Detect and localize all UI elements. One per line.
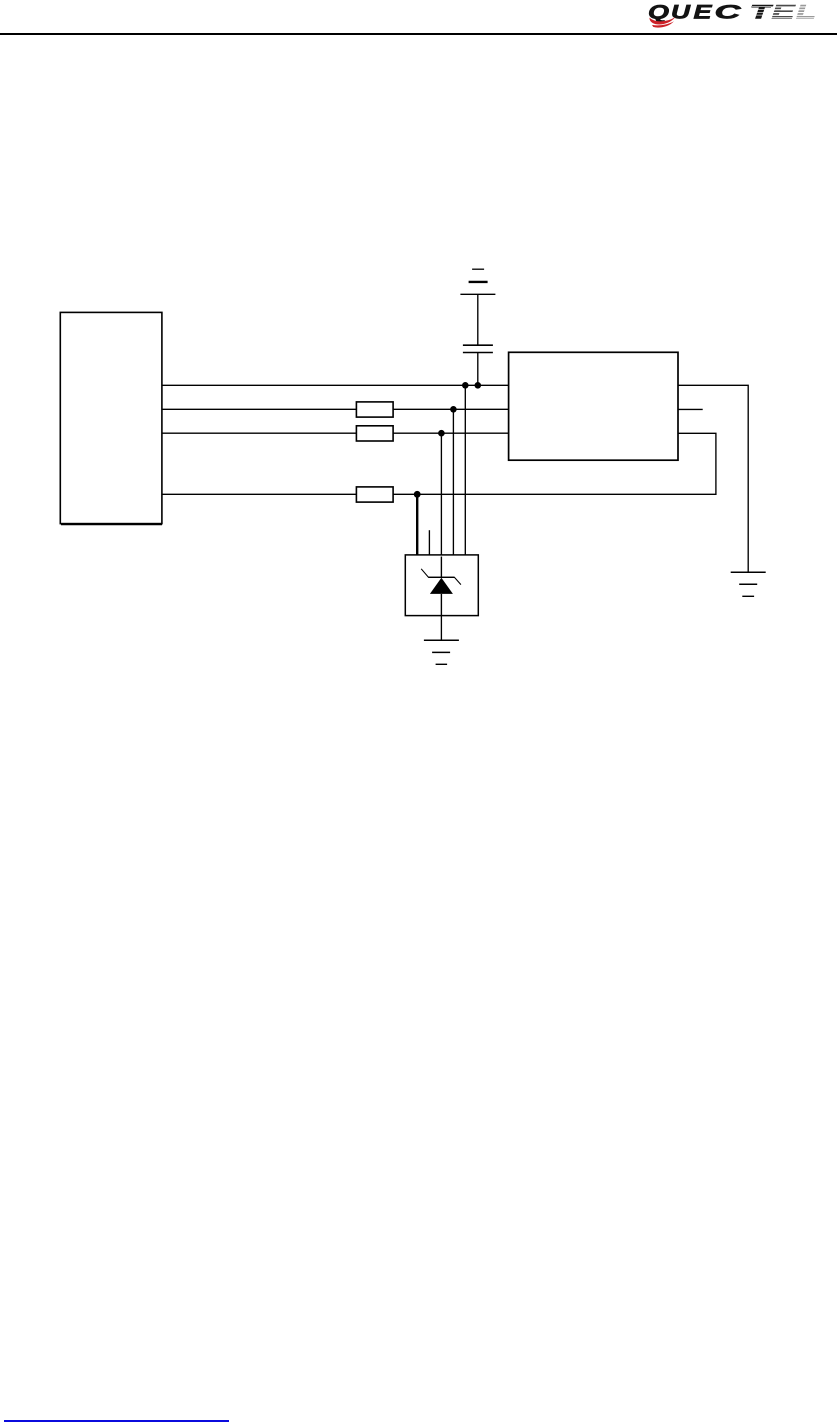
wire J1 GND pin to ground: [678, 385, 748, 572]
wire SIM_CLK: [162, 432, 509, 434]
wire SIM_DATA: [162, 408, 509, 410]
junction (VSIM to TVS branch): [462, 382, 469, 389]
footer hyperlink rule: [4, 1420, 229, 1422]
capacitor C1: [463, 345, 493, 352]
wire SIM_CLK down to TVS pin: [440, 433, 442, 555]
resistor R1: [356, 402, 393, 417]
Quectel logo: [640, 0, 830, 32]
wire from top ground to capacitor C1: [477, 294, 479, 345]
module U1 (left box): [60, 312, 162, 524]
zener diode symbol inside D1: [421, 557, 461, 616]
SIM card holder J1 (right box): [509, 352, 678, 460]
wire SIM_DATA down to TVS pin: [452, 409, 454, 555]
junction (SIM_RST to TVS branch): [414, 491, 421, 498]
unconnected TVS pin stub: [428, 530, 430, 555]
junction (SIM_CLK to TVS branch): [438, 430, 445, 437]
wire SIM_RST (runs under SIM holder then up to its right pin): [162, 433, 716, 494]
wire from D1 to ground: [440, 616, 442, 641]
wire VSIM (net from module to SIM holder, top): [162, 384, 509, 386]
ground (top, flipped, above capacitor): [460, 269, 495, 294]
header rule: [0, 33, 837, 35]
ground (below TVS D1): [424, 640, 459, 664]
unconnected J1 VPP pin stub: [678, 408, 703, 410]
resistor R2: [356, 426, 393, 441]
wire VSIM down to TVS pin: [464, 385, 466, 555]
junction (SIM_DATA to TVS branch): [450, 406, 457, 413]
resistor R3: [356, 487, 393, 502]
wire SIM_RST down to TVS pin (thick): [416, 494, 418, 555]
ground (right, below J1): [731, 572, 766, 596]
junction (capacitor to VSIM net): [475, 382, 482, 389]
wire from capacitor C1 down to VSIM net: [477, 353, 479, 386]
TVS diode array D1 (box): [405, 555, 478, 616]
